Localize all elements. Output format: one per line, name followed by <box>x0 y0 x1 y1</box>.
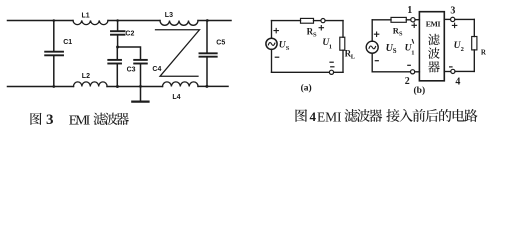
svg-text:EMI: EMI <box>69 113 91 128</box>
svg-text:S: S <box>313 31 317 38</box>
svg-text:C4: C4 <box>152 66 161 73</box>
label 波 in box <box>428 47 440 58</box>
resistor Rs box <box>301 18 314 23</box>
wire: Fig3 top rail left segment <box>8 20 74 22</box>
wire: (a) left lower <box>271 49 273 72</box>
wire: (a) right lower <box>342 50 344 72</box>
wire: EMI box to terminal 4 <box>444 71 451 73</box>
svg-text:1: 1 <box>411 50 414 57</box>
minus sign above terminal 2 <box>408 64 411 66</box>
svg-text:EMI: EMI <box>317 109 342 124</box>
node: bottom rail / C4 <box>139 85 142 88</box>
node: top rail / C1 <box>53 19 56 22</box>
ground <box>132 100 148 102</box>
inductor L3 <box>160 21 198 26</box>
svg-text:4: 4 <box>310 109 317 124</box>
wire: (b) left lower <box>371 53 373 72</box>
svg-text:L3: L3 <box>165 12 173 19</box>
svg-text:S: S <box>399 31 403 38</box>
minus sign above bottom terminal (a) <box>331 66 334 68</box>
svg-text:C3: C3 <box>127 67 136 74</box>
caption figure 3 <box>30 112 129 128</box>
wire: Fig3 bottom rail right segment <box>198 85 228 87</box>
plus sign near source (a) <box>274 28 278 32</box>
wire: (b) right upper <box>473 19 475 36</box>
terminal 3 open circle <box>451 17 455 21</box>
source Us circle <box>266 38 277 49</box>
wire: terminal 2 to EMI box <box>415 71 420 73</box>
node: bottom rail / C5 <box>205 85 208 88</box>
svg-text:EMI: EMI <box>426 20 441 29</box>
inductor L4 <box>163 82 199 87</box>
wire: terminal 1 to EMI box <box>415 19 419 21</box>
label 器 in box <box>428 61 440 72</box>
minus sign below U1 <box>330 61 333 63</box>
wire: Fig3 bottom rail left segment <box>8 86 74 88</box>
wire: (a) top <box>272 20 301 22</box>
wire: (a) left upper <box>271 21 273 38</box>
capacitor C4 <box>134 60 147 101</box>
svg-text:S: S <box>286 45 290 52</box>
wire: Fig3 top rail right segment <box>198 20 231 22</box>
wire: (a) bottom right <box>334 71 343 73</box>
wire: (b) right lower <box>473 50 475 72</box>
EMI filter box <box>419 12 444 81</box>
plus sign near source (b) <box>374 32 378 36</box>
svg-text:3: 3 <box>46 112 54 128</box>
terminal 4 open circle <box>451 69 455 73</box>
svg-text:(b): (b) <box>414 85 426 96</box>
capacitor C2 <box>111 21 125 48</box>
inductor L2 <box>74 82 108 87</box>
wire: (a) bottom left <box>272 71 330 73</box>
resistor R box (b) <box>472 37 477 50</box>
wire: Fig3 bottom rail middle segment <box>107 86 163 88</box>
svg-text:L: L <box>351 54 356 61</box>
capacitor C3 <box>108 47 121 87</box>
minus sign below source (a) <box>275 56 278 58</box>
svg-text:4: 4 <box>455 77 460 88</box>
minus sign below source (b) <box>375 60 378 62</box>
plus sign near top terminal (a) <box>319 26 323 30</box>
svg-text:(a): (a) <box>301 83 312 94</box>
svg-text:1: 1 <box>407 5 412 16</box>
terminal 1 open circle <box>411 18 415 22</box>
wire: (a) top right <box>325 20 343 22</box>
plus sign below terminal 1 <box>412 23 416 27</box>
terminal: (a) top open circle <box>321 19 325 23</box>
terminal 2 open circle <box>411 70 415 74</box>
svg-text:L1: L1 <box>82 13 90 20</box>
wire: (a) right upper <box>342 21 344 38</box>
capacitor C5 <box>200 21 217 87</box>
svg-text:C1: C1 <box>63 39 72 46</box>
svg-text:C2: C2 <box>125 31 134 38</box>
svg-text:2: 2 <box>461 46 464 53</box>
svg-text:1: 1 <box>329 43 332 50</box>
inductor L1 <box>73 21 108 25</box>
common-mode coupling mark (Z line) <box>156 30 200 77</box>
source Us circle (b) <box>366 41 378 53</box>
svg-text:L2: L2 <box>82 73 90 80</box>
wire: EMI box to terminal 3 <box>444 18 450 20</box>
wire: (b) left upper <box>371 20 373 41</box>
caption figure 4 <box>295 109 477 124</box>
terminal: (a) bottom open circle <box>329 70 333 74</box>
wire: (b) Rs to terminal 1 <box>406 19 410 21</box>
svg-text:3: 3 <box>450 6 455 17</box>
wire: Fig3 top rail middle segment <box>108 20 160 22</box>
wire: terminal 3 to right corner <box>455 18 474 20</box>
plus sign below terminal 3 <box>452 23 456 27</box>
wire: terminal 4 to right corner <box>455 70 474 72</box>
prime mark of U1' <box>412 40 413 43</box>
node: bottom rail / C3 <box>116 85 119 88</box>
svg-text:C5: C5 <box>216 39 225 46</box>
label 滤 in box <box>428 34 440 45</box>
minus sign above terminal 4 <box>450 66 452 68</box>
resistor RL box <box>340 37 345 50</box>
node: top rail / C5 <box>206 19 209 22</box>
node: bottom rail / C1 <box>52 85 55 88</box>
node: top rail / C2 <box>116 19 119 22</box>
wire: (a) top to terminal <box>314 20 321 22</box>
node: C2-C3-C4 junction <box>116 46 119 49</box>
svg-text:S: S <box>393 48 397 55</box>
source Us tilde (b) <box>369 46 376 49</box>
wire: (b) bottom left <box>372 71 410 73</box>
capacitor C1 <box>45 21 63 87</box>
svg-text:L4: L4 <box>172 94 180 101</box>
wire: (b) top left <box>372 19 391 21</box>
source Us tilde <box>268 43 275 46</box>
resistor Rs box (b) <box>391 17 406 22</box>
svg-text:2: 2 <box>405 76 410 87</box>
wire: jog from node to C4 <box>118 47 141 60</box>
